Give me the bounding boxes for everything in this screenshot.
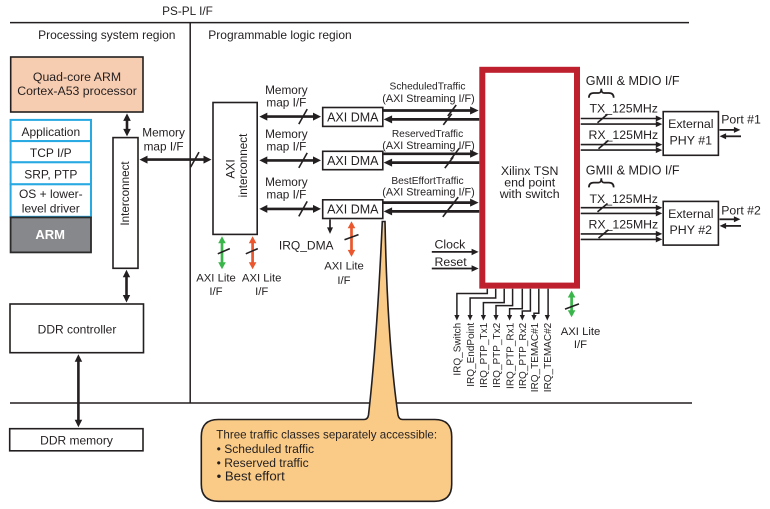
block AXI DMA 2	[323, 151, 383, 169]
svg-text:PHY #1: PHY #1	[670, 133, 713, 147]
arrow Interconnect to DDR controller	[125, 276, 128, 296]
svg-text:AXI DMA: AXI DMA	[327, 110, 379, 124]
arrow AXI interconnect to AXI DMA 1	[266, 115, 314, 118]
svg-text:interconnect: interconnect	[237, 133, 250, 197]
svg-text:Memory: Memory	[142, 125, 185, 139]
arrow TSN to AXI DMA 1	[391, 118, 479, 121]
arrow ARM processor to Interconnect	[126, 120, 129, 130]
block TCP I/P	[11, 141, 91, 162]
svg-text:ARM: ARM	[35, 227, 65, 242]
svg-text:IRQ_DMA: IRQ_DMA	[279, 239, 334, 253]
svg-text:ReservedTraffic: ReservedTraffic	[392, 129, 463, 140]
arrow TSN to AXI DMA 2	[391, 161, 479, 164]
block AXI DMA 1	[323, 108, 383, 127]
svg-text:PS-PL I/F: PS-PL I/F	[162, 4, 213, 18]
arrow ScheduledTraffic to TSN	[383, 109, 471, 112]
svg-text:Interconnect: Interconnect	[119, 161, 132, 226]
wire IRQ_PTP_Rx1	[510, 289, 523, 316]
wire IRQ_EndPoint	[470, 289, 496, 316]
svg-text:AXI Lite: AXI Lite	[324, 261, 364, 273]
svg-text:DDR controller: DDR controller	[38, 323, 117, 337]
arrow TSN to AXI DMA 3	[391, 210, 479, 213]
svg-text:AXI DMA: AXI DMA	[327, 154, 379, 168]
wire IRQ_TEMAC#2	[547, 289, 549, 316]
arrow AXI Lite (green) AXI interconnect	[221, 242, 224, 263]
svg-text:(AXI Streaming I/F): (AXI Streaming I/F)	[382, 187, 474, 199]
slash on memory map bus 3	[299, 201, 307, 216]
block Interconnect	[113, 138, 138, 269]
svg-text:AXI Lite: AXI Lite	[561, 326, 601, 338]
svg-text:AXI DMA: AXI DMA	[327, 203, 379, 217]
wire TX pair	[581, 207, 657, 209]
arrow AXI Lite (green) TSN	[570, 297, 573, 312]
arrow Reset	[432, 268, 473, 270]
svg-text:IRQ_PTP_Tx2: IRQ_PTP_Tx2	[492, 322, 503, 387]
port arrows	[720, 129, 735, 131]
block AXI interconnect	[213, 103, 257, 235]
svg-text:• Best effort: • Best effort	[217, 469, 285, 484]
svg-text:ScheduledTraffic: ScheduledTraffic	[390, 82, 466, 93]
arrow IRQ_DMA from AXI DMA 3	[329, 220, 331, 229]
block Application	[11, 120, 91, 141]
arrow AXI interconnect to AXI DMA 2	[266, 159, 314, 162]
svg-text:IRQ_PTP_Tx1: IRQ_PTP_Tx1	[479, 322, 490, 387]
svg-text:RX_125MHz: RX_125MHz	[589, 128, 659, 142]
wire RX pair	[581, 233, 657, 235]
svg-text:IRQ_EndPoint: IRQ_EndPoint	[466, 323, 477, 387]
svg-text:Three traffic classes separate: Three traffic classes separately accessi…	[216, 429, 437, 442]
slash on memory map bus 2	[299, 153, 307, 168]
svg-text:TCP I/P: TCP I/P	[30, 146, 72, 160]
svg-text:IRQ_TEMAC#2: IRQ_TEMAC#2	[543, 322, 554, 392]
arrow AXI Lite (orange) AXI DMA 3	[350, 227, 353, 251]
top boundary line	[10, 22, 689, 24]
block Xilinx TSN end point with switch	[482, 70, 577, 286]
wire IRQ_TEMAC#1	[534, 289, 539, 316]
svg-text:TX_125MHz: TX_125MHz	[590, 101, 658, 115]
svg-text:map I/F: map I/F	[266, 140, 306, 154]
svg-text:PHY #2: PHY #2	[670, 223, 713, 237]
block DDR memory	[10, 429, 143, 451]
svg-text:with switch: with switch	[499, 187, 560, 201]
svg-text:• Scheduled traffic: • Scheduled traffic	[217, 442, 314, 456]
svg-text:AXI Lite: AXI Lite	[196, 272, 236, 284]
svg-text:level driver: level driver	[22, 201, 80, 215]
block Quad-core ARM Cortex-A53 processor	[11, 57, 143, 112]
callout Three traffic classes	[201, 222, 451, 502]
svg-text:External: External	[668, 117, 713, 131]
block SRP, PTP	[11, 162, 91, 184]
brace	[589, 178, 614, 187]
port arrows	[720, 218, 735, 220]
bottom boundary line	[10, 402, 692, 404]
svg-text:GMII & MDIO I/F: GMII & MDIO I/F	[586, 164, 680, 178]
svg-text:I/F: I/F	[574, 339, 587, 351]
brace	[589, 89, 614, 98]
svg-text:IRQ_Switch: IRQ_Switch	[453, 323, 464, 376]
svg-text:External: External	[668, 207, 713, 221]
block External PHY #2	[663, 201, 718, 245]
svg-text:IRQ_PTP_Rx2: IRQ_PTP_Rx2	[518, 322, 529, 389]
svg-text:(AXI Streaming I/F): (AXI Streaming I/F)	[382, 140, 474, 152]
wire IRQ_Switch	[457, 289, 487, 316]
svg-text:IRQ_TEMAC#1: IRQ_TEMAC#1	[530, 322, 541, 392]
svg-text:RX_125MHz: RX_125MHz	[589, 217, 659, 231]
svg-text:AXI Lite: AXI Lite	[242, 272, 282, 284]
svg-text:AXI: AXI	[224, 159, 238, 178]
wire RX pair	[581, 144, 657, 146]
svg-text:OS + lower-: OS + lower-	[19, 187, 83, 201]
slash on memory map bus 1	[299, 109, 307, 124]
block AXI DMA 3	[323, 200, 383, 219]
svg-text:map I/F: map I/F	[144, 139, 184, 153]
svg-text:Programmable logic region: Programmable logic region	[208, 28, 351, 42]
svg-text:IRQ_PTP_Rx1: IRQ_PTP_Rx1	[505, 322, 516, 389]
slash on memory map bus	[191, 152, 199, 167]
svg-text:GMII & MDIO I/F: GMII & MDIO I/F	[586, 74, 680, 88]
svg-text:TX_125MHz: TX_125MHz	[590, 192, 658, 206]
svg-text:SRP, PTP: SRP, PTP	[24, 167, 77, 181]
block ARM	[11, 217, 91, 252]
wire TX pair	[581, 118, 657, 120]
svg-text:Quad-core ARM: Quad-core ARM	[33, 70, 121, 84]
svg-text:map I/F: map I/F	[266, 187, 306, 201]
svg-text:I/F: I/F	[209, 286, 222, 298]
wire IRQ_PTP_Rx2	[522, 289, 530, 316]
arrow AXI Lite (orange) AXI interconnect	[251, 242, 254, 263]
svg-text:Clock: Clock	[435, 238, 467, 252]
arrow ReservedTraffic to TSN	[383, 152, 471, 155]
svg-text:Cortex-A53 processor: Cortex-A53 processor	[17, 84, 137, 98]
svg-text:Port #1: Port #1	[721, 112, 761, 126]
PS-PL divider line	[189, 23, 191, 403]
block OS + lower-level driver	[11, 184, 91, 217]
svg-text:DDR memory: DDR memory	[40, 434, 113, 448]
svg-text:I/F: I/F	[255, 286, 268, 298]
wire IRQ_PTP_Tx2	[496, 289, 513, 316]
svg-text:Reset: Reset	[435, 255, 468, 269]
arrow AXI interconnect to AXI DMA 3	[266, 208, 314, 211]
arrow Interconnect to AXI interconnect	[147, 158, 205, 161]
svg-text:BestEffortTraffic: BestEffortTraffic	[391, 176, 463, 187]
arrow BestEffortTraffic to TSN	[383, 201, 471, 204]
svg-text:I/F: I/F	[337, 275, 350, 287]
arrow Clock	[432, 251, 473, 253]
block DDR controller	[10, 304, 144, 353]
svg-text:Port #2: Port #2	[721, 204, 761, 218]
svg-text:map I/F: map I/F	[266, 95, 306, 109]
block External PHY #1	[663, 112, 718, 156]
wire IRQ_PTP_Tx1	[483, 289, 504, 316]
svg-text:Application: Application	[21, 125, 80, 139]
svg-text:(AXI Streaming I/F): (AXI Streaming I/F)	[382, 93, 474, 105]
svg-text:Processing system region: Processing system region	[38, 28, 175, 42]
arrow DDR controller to DDR memory	[77, 361, 80, 421]
